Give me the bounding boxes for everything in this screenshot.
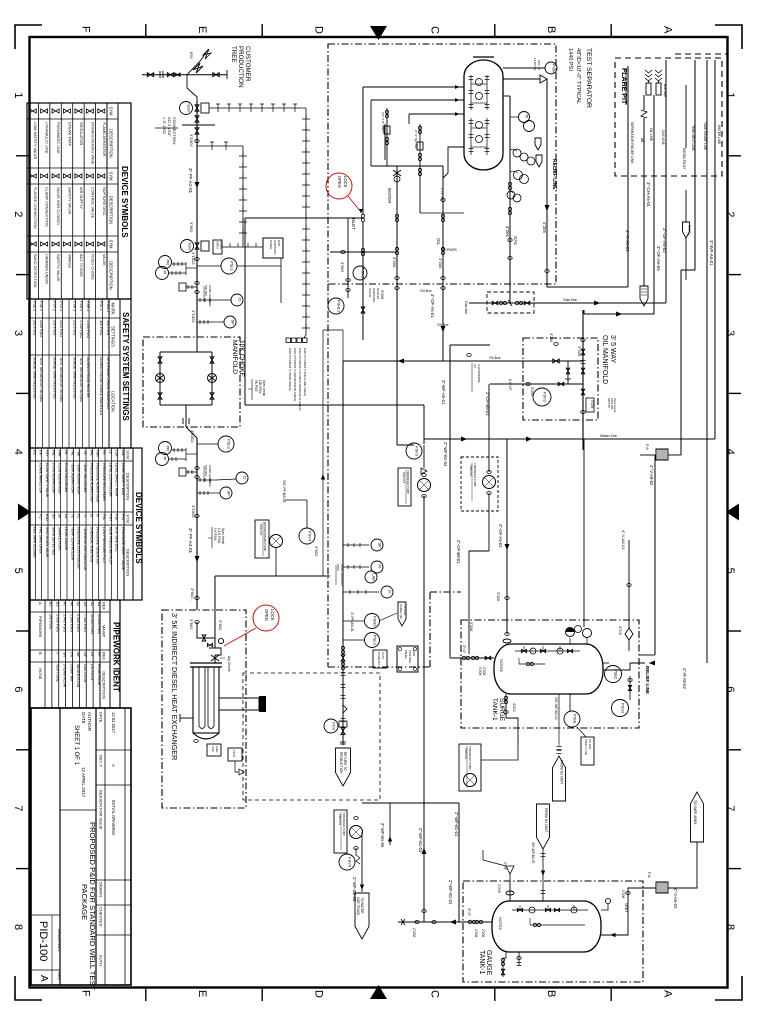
svg-text:PSH3: PSH3 — [372, 616, 377, 627]
svg-text:Oil line: Oil line — [420, 289, 432, 293]
PSV to relief — [503, 78, 540, 80]
svg-text:UPSTREAM CHOKE MANIFOLD: UPSTREAM CHOKE MANIFOLD — [106, 357, 110, 409]
svg-text:SP: SP — [377, 543, 382, 549]
svg-text:PSH 3: PSH 3 — [73, 301, 77, 311]
svg-text:PANEL OIL: PANEL OIL — [399, 604, 403, 620]
svg-text:F.A: F.A — [39, 450, 43, 456]
stub 4 oil — [443, 147, 464, 178]
svg-text:3"1502: 3"1502 — [189, 134, 194, 147]
separator skid boundary box — [328, 44, 556, 284]
PSH1 bubble top — [503, 67, 545, 69]
svg-text:HOSE: HOSE — [38, 668, 43, 680]
PSH3 PSL3 — [343, 620, 364, 622]
FA on surge vent — [640, 454, 656, 456]
PR2 PI2 — [159, 442, 172, 455]
svg-text:DEVICE SYMBOLS: DEVICE SYMBOLS — [120, 166, 129, 238]
stub 2 — [371, 99, 464, 101]
svg-text:PSL2: PSL2 — [226, 439, 231, 450]
svg-text:PI: PI — [96, 514, 100, 517]
svg-text:SETTINGS: SETTINGS — [111, 326, 116, 347]
svg-text:4"-V-A6-03: 4"-V-A6-03 — [673, 888, 678, 909]
svg-text:DATE: DATE — [99, 712, 104, 723]
main feed line upper — [196, 101, 198, 337]
water header y439 — [424, 438, 715, 440]
svg-text:STEAM TRAP: STEAM TRAP — [68, 122, 72, 147]
svg-text:CHECKED: CHECKED — [99, 907, 104, 927]
svg-text:3: 3 — [12, 330, 24, 336]
svg-text:PRESSURE CONTROLLER: PRESSURE CONTROLLER — [77, 527, 81, 569]
svg-text:PRESSURE ALARM LOW: PRESSURE ALARM LOW — [89, 463, 93, 503]
svg-text:FLOW ALARM HIGH: FLOW ALARM HIGH — [58, 463, 62, 494]
gas outlet line — [503, 95, 510, 97]
manifold outlet — [185, 405, 187, 427]
svg-text:AIR SUPPLY: AIR SUPPLY — [79, 187, 83, 210]
diesel pennant — [683, 222, 690, 238]
oil manifold box — [523, 338, 598, 420]
burner boxes — [207, 744, 221, 756]
svg-text:PSH 2: PSH 2 — [79, 301, 83, 311]
svg-text:F.O: F.O — [39, 514, 43, 520]
svg-text:4"×2": 4"×2" — [467, 908, 471, 917]
gas line instruments — [510, 116, 518, 118]
svg-text:3"206: 3"206 — [549, 333, 553, 342]
svg-text:DESCRIPTION: DESCRIPTION — [102, 671, 107, 698]
svg-text:3"206: 3"206 — [497, 884, 501, 893]
svg-text:LC: LC — [108, 450, 112, 455]
svg-text:SAND DETECTED: SAND DETECTED — [51, 527, 55, 555]
flare right dashed boundary — [675, 54, 727, 300]
svg-text:SAND DETECTION: SAND DETECTION — [33, 254, 37, 288]
svg-text:TREE: TREE — [230, 46, 237, 63]
svg-text:DESCRIPTION: DESCRIPTION — [109, 261, 114, 290]
svg-text:8: 8 — [12, 924, 24, 930]
svg-text:48"ID×10'-0" TYPICAL: 48"ID×10'-0" TYPICAL — [575, 48, 581, 104]
water from sep to pump — [397, 444, 414, 446]
PSHL bottom — [569, 694, 571, 711]
double valve below — [195, 116, 199, 122]
svg-text:PILOT: PILOT — [232, 750, 236, 758]
svg-text:FROM N2 UNIT: FROM N2 UNIT — [560, 760, 564, 784]
choke actuator box — [213, 240, 222, 254]
svg-text:8: 8 — [724, 924, 736, 930]
svg-text:TANK-1: TANK-1 — [491, 698, 498, 721]
svg-text:PI: PI — [162, 457, 167, 461]
diesel pilot line — [685, 85, 687, 148]
svg-text:4"206: 4"206 — [478, 667, 482, 675]
relief hdr horizontal — [547, 286, 628, 288]
svg-text:1502: 1502 — [336, 564, 340, 571]
svg-text:PSE2: PSE2 — [613, 669, 618, 680]
svg-text:F: F — [80, 26, 92, 33]
burner 1 — [646, 83, 651, 95]
svg-text:PSL1: PSL1 — [229, 261, 234, 272]
svg-text:DESCRIPTION: DESCRIPTION — [126, 473, 131, 500]
svg-text:4"-V-A6-01: 4"-V-A6-01 — [621, 530, 626, 550]
svg-text:FLOW SAFETY VALVE: FLOW SAFETY VALVE — [45, 463, 49, 498]
FI — [343, 565, 369, 569]
svg-text:SYM: SYM — [126, 514, 131, 523]
water dump funnel — [483, 850, 506, 866]
svg-text:PSHL: PSHL — [572, 714, 577, 725]
svg-text:FLOW RECORDER: FLOW RECORDER — [64, 463, 68, 493]
svg-text:4"-R-A8-02: 4"-R-A8-02 — [682, 668, 687, 689]
svg-text:SAFETY VALVE: SAFETY VALVE — [68, 187, 72, 215]
oil line to flare — [653, 95, 655, 314]
surge internals header — [515, 650, 580, 652]
LOCK OPEN circle 2 — [253, 605, 279, 631]
SP2 — [197, 491, 212, 495]
svg-text:E: E — [196, 990, 208, 997]
svg-text:AUTH: AUTH — [99, 955, 104, 966]
svg-text:TANK VENT LINE: TANK VENT LINE — [691, 125, 695, 151]
svg-text:PBA-005: PBA-005 — [259, 524, 263, 536]
svg-text:PRESSURE INDICATOR: PRESSURE INDICATOR — [96, 527, 100, 565]
ESV valve — [193, 63, 203, 73]
svg-text:10K CHOKE: 10K CHOKE — [238, 340, 245, 378]
svg-text:REV.: REV. — [57, 972, 62, 981]
ESD panel 2 box — [397, 646, 418, 672]
water to truck branch — [362, 803, 390, 845]
surge bottom drain — [505, 694, 507, 718]
svg-text:SWAGE: SWAGE — [68, 254, 72, 268]
svg-text:DEVICE SYMBOLS: DEVICE SYMBOLS — [134, 492, 143, 564]
riser to inlet — [244, 218, 246, 405]
svg-text:LSH: LSH — [115, 450, 119, 457]
gauge bottom drain — [503, 952, 506, 977]
link into oil hdr — [323, 329, 343, 331]
svg-text:SSV: SSV — [187, 242, 192, 250]
water drop line — [396, 166, 398, 445]
svg-text:LOCATION: LOCATION — [111, 391, 116, 412]
svg-text:3"206: 3"206 — [590, 400, 594, 408]
oil drop line — [442, 166, 444, 361]
svg-text:6: 6 — [12, 686, 24, 692]
svg-text:CI: CI — [387, 590, 392, 594]
svg-text:2"-WF-B1-06: 2"-WF-B1-06 — [380, 823, 385, 848]
svg-text:PAH: PAH — [96, 450, 100, 457]
svg-text:FAIL SAFE CLOSED: FAIL SAFE CLOSED — [32, 527, 36, 558]
HX tubes — [199, 667, 205, 729]
LAB PR — [365, 571, 377, 583]
svg-text:PIPEWORK IDENT: PIPEWORK IDENT — [112, 622, 121, 692]
svg-text:C: C — [429, 26, 441, 34]
svg-text:B2: B2 — [49, 602, 53, 606]
HX vessel — [190, 662, 222, 664]
svg-text:FLOW ALARM LOW: FLOW ALARM LOW — [51, 463, 55, 494]
svg-text:INITIAL DRAWING: INITIAL DRAWING — [111, 800, 116, 835]
svg-text:VENT: VENT — [624, 903, 628, 913]
cross line y405 — [245, 404, 424, 406]
svg-text:TEMP. ALARM HIGH: TEMP. ALARM HIGH — [77, 463, 81, 495]
svg-text:LOCK: LOCK — [270, 609, 275, 621]
svg-text:D: D — [312, 990, 324, 998]
PSL1 — [197, 265, 221, 267]
svg-text:F.A: F.A — [645, 444, 650, 450]
svg-text:3"602 -: 3"602 - — [190, 588, 195, 601]
svg-text:PRI-002: PRI-002 — [204, 285, 208, 296]
SP — [343, 543, 369, 547]
svg-text:PI: PI — [524, 115, 529, 119]
svg-text:300 PSIG: 300 PSIG — [106, 320, 110, 335]
svg-text:3"206: 3"206 — [380, 290, 384, 299]
svg-text:250 PSIG: 250 PSIG — [53, 320, 57, 335]
PSL2 — [197, 443, 218, 445]
inlet line — [245, 217, 363, 219]
svg-text:4"206: 4"206 — [542, 222, 547, 233]
TO ESD pennant — [398, 602, 406, 626]
sand det 2 — [195, 467, 199, 470]
svg-text:TEST SEPARATOR VESSEL: TEST SEPARATOR VESSEL — [79, 357, 83, 403]
svg-text:1,000 PSIG: 1,000 PSIG — [56, 614, 60, 632]
svg-text:GAS: GAS — [513, 236, 518, 245]
svg-text:WATER LINE: WATER LINE — [717, 125, 721, 144]
silencer pennant on CH line — [640, 286, 648, 306]
N2 line — [558, 694, 560, 744]
svg-text:PSE 2: PSE 2 — [33, 301, 37, 311]
svg-text:HAMMER UNION: HAMMER UNION — [45, 254, 49, 284]
surge vessel shell — [494, 644, 603, 694]
svg-text:2: 2 — [724, 211, 736, 217]
svg-text:LEVEL SAFETY HIGH: LEVEL SAFETY HIGH — [115, 463, 119, 497]
separator internals group2 — [470, 118, 472, 155]
svg-text:HIGH PRESSURE PILOT: HIGH PRESSURE PILOT — [108, 527, 112, 565]
svg-text:0.2"×3": 0.2"×3" — [508, 379, 512, 391]
svg-text:AMPLI: AMPLI — [216, 241, 220, 249]
svg-text:5 K PSI#: 5 K PSI# — [213, 528, 217, 541]
svg-text:1440 PSI: 1440 PSI — [567, 48, 573, 71]
svg-text:3"206: 3"206 — [496, 592, 500, 601]
svg-text:3/8"-WF-B3-03: 3/8"-WF-B3-03 — [554, 697, 558, 720]
svg-text:A1: A1 — [97, 602, 101, 606]
pump PBA-002b near surge — [459, 744, 481, 791]
svg-text:3' 5K INDIRECT DIESEL HEAT EXC: 3' 5K INDIRECT DIESEL HEAT EXCHANGER — [170, 613, 179, 760]
gauge left nozzle — [463, 921, 492, 923]
relief corner — [649, 661, 655, 666]
svg-text:1500 PSIG: 1500 PSIG — [39, 320, 43, 337]
svg-text:PI: PI — [162, 271, 167, 275]
svg-text:PSL: PSL — [102, 514, 106, 520]
svg-text:FLAME ARRESTOR: FLAME ARRESTOR — [102, 122, 106, 157]
svg-text:AUTHOR: AUTHOR — [87, 712, 92, 732]
svg-text:GAS LINE: GAS LINE — [661, 130, 665, 145]
svg-text:5: 5 — [724, 568, 736, 574]
svg-text:E: E — [196, 26, 208, 33]
inlet vert to PSHL2 — [347, 218, 349, 298]
svg-text:TEMPERATURE INDICATOR: TEMPERATURE INDICATOR — [83, 527, 87, 571]
svg-text:SAFETY SYSTEM SETTINGS: SAFETY SYSTEM SETTINGS — [121, 312, 130, 421]
svg-text:3"602: 3"602 — [218, 620, 223, 631]
gas meter run dashed box — [487, 292, 534, 313]
svg-text:OIL FLOW: OIL FLOW — [90, 664, 94, 681]
svg-text:TANK RELIEF LINE: TANK RELIEF LINE — [703, 122, 707, 150]
svg-text:2"×4": 2"×4" — [503, 862, 507, 871]
svg-text:3"206: 3"206 — [438, 258, 443, 269]
svg-text:2"-WF-B1-02: 2"-WF-B1-02 — [448, 880, 453, 905]
svg-text:1443 PSIG: 1443 PSIG — [59, 320, 63, 337]
svg-text:ESV: ESV — [189, 52, 193, 60]
svg-text:WATER: WATER — [387, 188, 392, 203]
svg-text:1440 PSI: 1440 PSI — [533, 58, 537, 71]
CI3 — [343, 590, 379, 594]
SP bubble — [197, 320, 212, 324]
sand detector — [195, 282, 199, 285]
svg-text:LOCK: LOCK — [343, 176, 348, 188]
svg-text:REF: REF — [102, 602, 107, 611]
svg-text:FSV2: FSV2 — [542, 392, 547, 403]
svg-text:SURGE TANK HOLD-POD: SURGE TANK HOLD-POD — [53, 357, 57, 399]
svg-text:WF: WF — [76, 652, 80, 657]
svg-text:PSH 1: PSH 1 — [86, 301, 90, 311]
svg-text:FLUID FLOW: FLUID FLOW — [97, 664, 101, 686]
svg-text:2"-OF-B8-01: 2"-OF-B8-01 — [456, 540, 461, 564]
svg-text:REV #: REV # — [99, 755, 104, 767]
svg-text:PIPEWORK: PIPEWORK — [38, 616, 43, 638]
svg-text:RELIEF LINE: RELIEF LINE — [645, 666, 650, 694]
svg-text:PBA-002: PBA-002 — [464, 748, 468, 760]
svg-text:3"602: 3"602 — [189, 222, 194, 233]
svg-text:DESCRIPTION: DESCRIPTION — [109, 196, 114, 225]
svg-text:LSL: LSL — [121, 450, 125, 456]
svg-text:SAMPLE POINT: SAMPLE POINT — [58, 527, 62, 551]
svg-text:PANEL: PANEL — [404, 650, 408, 659]
svg-text:REGULATOR: REGULATOR — [79, 122, 83, 146]
svg-text:FAIL SAFE OPEN: FAIL SAFE OPEN — [39, 527, 43, 554]
svg-text:3"602: 3"602 — [314, 546, 319, 557]
pump area dashed box — [243, 673, 380, 800]
svg-text:DOWNSTREAM HEATER: DOWNSTREAM HEATER — [86, 357, 90, 398]
svg-text:ESD SYSTEM 2 (CHOKE MANIFOLD A: ESD SYSTEM 2 (CHOKE MANIFOLD AREA) — [298, 348, 302, 410]
left nozzle — [450, 657, 494, 659]
svg-text:ESD SYSTEM 4 (TANK AREA): ESD SYSTEM 4 (TANK AREA) — [288, 348, 292, 391]
svg-text:C: C — [429, 990, 441, 998]
svg-text:3"-GF-A6-02: 3"-GF-A6-02 — [662, 228, 667, 253]
gas line to flare — [665, 60, 667, 303]
svg-text:5,000 PSIG: 5,000 PSIG — [76, 614, 80, 632]
svg-text:CA: CA — [69, 652, 73, 658]
svg-text:RUPTURE DISC: RUPTURE DISC — [115, 527, 119, 552]
svg-text:FAL: FAL — [51, 450, 55, 456]
fire tube arm — [219, 698, 259, 710]
svg-text:3"1502: 3"1502 — [191, 252, 196, 265]
burner risers — [648, 81, 650, 83]
svg-text:PSV4: PSV4 — [307, 531, 312, 542]
svg-text:FIXED CHOKE: FIXED CHOKE — [90, 254, 94, 280]
dump stack 2 — [419, 124, 421, 185]
svg-text:TR: TR — [83, 450, 87, 455]
svg-text:A4: A4 — [76, 602, 80, 606]
svg-text:CI: CI — [242, 476, 247, 480]
svg-text:PSLL 1: PSLL 1 — [106, 301, 110, 312]
svg-text:DOWNSTREAM CHOKE MANIFOLD: DOWNSTREAM CHOKE MANIFOLD — [99, 357, 103, 416]
svg-text:3"206: 3"206 — [577, 346, 582, 357]
svg-text:4"206: 4"206 — [474, 929, 478, 937]
internal second row — [519, 663, 545, 665]
surge top instruments — [566, 628, 575, 637]
separator relief line to flare — [627, 66, 629, 287]
svg-text:Gas line: Gas line — [464, 301, 468, 314]
svg-text:GF: GF — [83, 652, 87, 657]
svg-text:265 PSIG: 265 PSIG — [33, 320, 37, 335]
svg-text:CAR TRUCK: CAR TRUCK — [356, 897, 360, 916]
svg-text:SSV: SSV — [186, 104, 191, 112]
svg-text:PSH: PSH — [551, 64, 556, 72]
svg-text:LG: LG — [64, 514, 68, 519]
table DEVICE SYMBOLS 1 — [27, 103, 131, 299]
gauge internals — [512, 909, 588, 911]
svg-text:XX: XX — [473, 364, 477, 368]
svg-text:PRESSURE RECORDER: PRESSURE RECORDER — [102, 463, 106, 502]
svg-text:OPEN: OPEN — [337, 176, 342, 188]
svg-text:PRESSURE ALARM HIGH: PRESSURE ALARM HIGH — [96, 463, 100, 503]
svg-text:RUPTURE DISC: RUPTURE DISC — [102, 187, 106, 216]
boundary leg right — [429, 592, 431, 667]
svg-text:MANIFOLD: MANIFOLD — [231, 340, 238, 374]
svg-text:VALVE NOR CLOSED: VALVE NOR CLOSED — [56, 187, 60, 225]
pump down line 2WFB103 — [423, 496, 425, 911]
svg-text:CI: CI — [237, 298, 242, 302]
svg-text:PBA-001: PBA-001 — [469, 465, 473, 477]
svg-text:STEAM FLOW: STEAM FLOW — [62, 664, 66, 688]
gauge tank box — [463, 881, 643, 982]
to safe area — [668, 842, 697, 888]
stub water — [363, 86, 464, 88]
svg-text:TANK-1 LSD: TANK-1 LSD — [584, 739, 588, 755]
svg-text:250 PSIG: 250 PSIG — [49, 614, 53, 629]
svg-text:REASON FOR ISSUE: REASON FOR ISSUE — [99, 790, 104, 830]
ESD control panel box — [263, 238, 283, 258]
svg-text:LOW SAFETY VALVE: LOW SAFETY VALVE — [33, 122, 37, 160]
svg-text:PSL 2: PSL 2 — [99, 301, 103, 310]
svg-text:MAWP: MAWP — [102, 625, 107, 638]
svg-text:PR: PR — [165, 260, 170, 266]
svg-text:PBA-002: PBA-002 — [338, 814, 342, 826]
lock open valve flanges — [361, 214, 364, 217]
svg-text:TEST SEPARATOR VESSEL: TEST SEPARATOR VESSEL — [39, 357, 43, 403]
table PIPEWORK IDENT — [29, 600, 120, 708]
svg-text:Oil line: Oil line — [489, 356, 501, 360]
svg-text:2"-WF-B1-01: 2"-WF-B1-01 — [454, 812, 459, 837]
svg-text:1,330 PSIG: 1,330 PSIG — [79, 320, 83, 338]
svg-text:DESCRIPTION: DESCRIPTION — [109, 129, 114, 158]
svg-text:D: D — [312, 26, 324, 34]
svg-text:CUSTOMER: CUSTOMER — [244, 46, 251, 82]
manifold second inlet y384 — [490, 383, 583, 385]
svg-text:DESCRIPTION: DESCRIPTION — [126, 549, 131, 576]
svg-text:A: A — [111, 764, 116, 767]
gauge feed horizontal — [398, 921, 463, 923]
right run — [211, 352, 213, 405]
svg-text:FLANGE CONNECTION: FLANGE CONNECTION — [33, 187, 37, 229]
svg-text:2"×1" fig 1502: 2"×1" fig 1502 — [414, 130, 418, 149]
svg-text:3"1502: 3"1502 — [190, 430, 195, 443]
pump circle — [418, 479, 431, 492]
svg-text:VALVE: VALVE — [368, 288, 372, 297]
svg-text:B1: B1 — [56, 602, 60, 606]
svg-text:GAUGE: GAUGE — [485, 950, 492, 976]
svg-text:CHEMICAL INJECTION: CHEMICAL INJECTION — [89, 527, 93, 563]
svg-text:SP: SP — [230, 320, 235, 326]
second N2 pennant — [537, 804, 550, 849]
adj choke — [211, 655, 219, 661]
x450 drop — [449, 345, 451, 654]
svg-text:3"206: 3"206 — [392, 257, 397, 268]
svg-text:HYDRAULIC LINE: HYDRAULIC LINE — [45, 122, 49, 154]
svg-text:225 PSIG: 225 PSIG — [73, 320, 77, 335]
svg-text:SURGE TANK HOLD-POD: SURGE TANK HOLD-POD — [33, 357, 37, 399]
svg-text:PID-100: PID-100 — [37, 921, 49, 961]
svg-text:DIESEL PILOT: DIESEL PILOT — [682, 148, 686, 169]
svg-text:PR: PR — [165, 446, 170, 452]
